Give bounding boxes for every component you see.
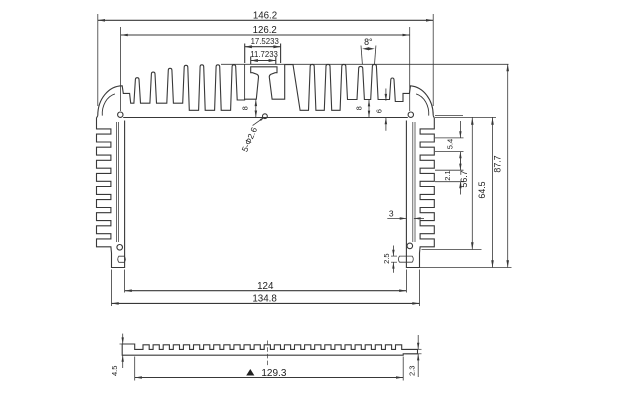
cover plate center line [267,341,269,367]
left wall inner rib line [115,122,117,242]
left corner inner arc [102,94,115,116]
dimension 11.7233 line [251,60,276,62]
svg-text:126.2: 126.2 [253,25,277,36]
underside reference line b [435,116,496,118]
svg-text:11.7233: 11.7233 [250,50,278,59]
right corner inner arc [416,94,429,116]
left wall inner rib line 2 [118,122,120,242]
underside reference line a [435,114,463,116]
screw hole top-right (phi 2.6) [408,112,413,117]
dimension 129.3 triangle [246,369,254,376]
cover plate outline with teeth [122,344,417,355]
dimension 17.5233 extension lines [244,44,246,64]
top plate underside line [123,117,408,119]
dimension 64.5 line [492,118,494,268]
dimension 17.5233 arrows [245,45,252,48]
svg-text:56.7: 56.7 [459,170,469,187]
svg-text:2.3: 2.3 [408,366,417,376]
left wall slot [118,256,126,262]
dimension 6 arrows [385,89,387,101]
dimension 134.8 extension lines [111,270,113,307]
dimension 124 line [125,290,407,292]
T-recess left wall [244,64,246,99]
svg-text:129.3: 129.3 [261,368,286,379]
dimension 56.7 line [471,118,473,250]
dimension 134.8 arrows [112,302,119,305]
svg-text:2.5: 2.5 [382,253,391,263]
svg-text:6: 6 [375,109,384,113]
svg-text:134.8: 134.8 [252,293,277,304]
dimension 146.2 arrows [98,19,105,22]
dimension 17.5233 line [245,46,281,48]
fin top reference line [221,63,509,65]
dimension 2.5 arrows [392,246,394,257]
dimension 2.3 ref lines [406,348,422,350]
angle 8deg extension lines [361,46,362,65]
svg-text:87.7: 87.7 [492,155,502,172]
dimension 2.1 arrows [459,158,461,171]
svg-text:8: 8 [354,106,363,110]
dimension 126.2 line [121,34,410,36]
dimension 2.3 arrows [417,335,419,349]
dimension 8 (center) arrow [255,99,257,117]
heatsink top plate with fins - main outline [98,64,433,115]
dimension 5.4 arrows [459,121,461,138]
right wall inner rib line [412,122,414,242]
svg-text:124: 124 [257,281,274,292]
left wall serrated outer surface and foot [97,116,125,268]
dimension 3 leader [387,217,406,219]
svg-text:17.5233: 17.5233 [251,37,279,46]
screw hole center (phi 2.6) [263,114,268,119]
dimension 124 arrows [125,289,132,292]
screw hole bottom-right (phi 2.6) [407,243,413,249]
svg-text:4.5: 4.5 [110,366,119,376]
reference line y=181.7 [435,181,464,183]
dimension 11.7233 extension lines [250,57,252,65]
reference line y=151.6 [435,151,464,153]
reference line y=249.5 [422,249,482,251]
dimension 134.8 line [112,302,420,304]
svg-text:8: 8 [241,106,250,110]
svg-text:64.5: 64.5 [477,181,487,198]
dimension 2.5 ref lines [391,255,397,257]
dimension 11.7233 arrows [251,59,258,62]
leader 5-phi2.6 [253,118,264,126]
svg-text:5-Φ2.6: 5-Φ2.6 [239,125,259,153]
screw hole top-left (phi 2.6) [118,112,123,117]
dimension 4.5 arrows [122,334,124,344]
svg-text:3: 3 [389,209,394,219]
dimension 126.2 extension lines [120,27,122,111]
dimension 146.2 line [98,19,433,21]
dimension 124 extension lines [124,270,126,293]
angle 8deg arrows [362,47,369,50]
right wall slot [398,256,413,262]
bottom reference line [420,267,512,269]
right wall inner rib line 2 [414,122,416,242]
reference line y=170.2 [435,169,464,171]
dimension 146.2 extension lines [97,14,99,106]
dimension 129.3 arrows [135,376,142,379]
dimension 129.3 line [135,377,404,379]
svg-text:146.2: 146.2 [253,10,277,21]
svg-text:2.1: 2.1 [443,170,452,180]
screw hole bottom-left (phi 2.6) [117,245,123,251]
dimension 8 (right) arrow [368,100,370,118]
svg-text:8°: 8° [364,37,372,47]
dimension 4.5 ref line [120,343,127,345]
dimension 129.3 extension lines [134,357,136,381]
reference line y=137.9 [435,137,464,139]
dimension 87.7 line [507,64,509,268]
dimension 126.2 arrows [121,34,128,37]
right wall serrated outer surface and foot [406,116,434,268]
svg-text:5.4: 5.4 [445,139,454,149]
